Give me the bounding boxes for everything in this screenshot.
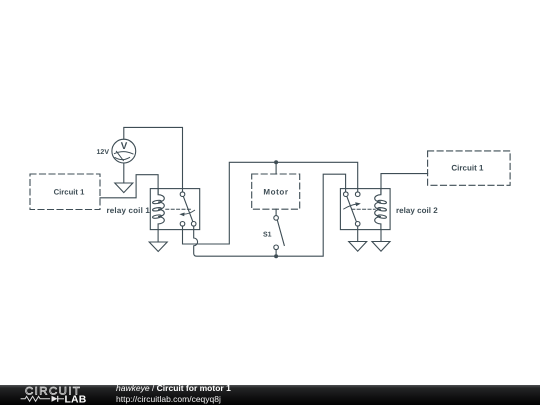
- circuit block B2 "Circuit 1" (right, dashed): [428, 151, 511, 185]
- title text: [116, 383, 231, 393]
- relay K1 box: [150, 189, 199, 230]
- relay K1 actuation arrow: [179, 210, 194, 216]
- svg-text:V: V: [121, 141, 128, 152]
- relay K1 coil (relay coil 1): [152, 189, 164, 230]
- wire W3: voltmeter bottom to ground: [123, 163, 125, 183]
- wire: motor top stub: [275, 162, 277, 174]
- wire W7: relay K2 common contact to ground: [357, 226, 359, 241]
- svg-text:relay coil 2: relay coil 2: [396, 206, 438, 215]
- CircuitLab logo: [0, 384, 100, 405]
- circuit block B1 "Circuit 1" (left, dashed): [30, 174, 100, 210]
- ground G4 (relay coil 2): [372, 242, 390, 252]
- relay K1 actuation dashed link: [166, 208, 191, 210]
- node: junction motor top: [274, 160, 278, 164]
- svg-text:Circuit 1: Circuit 1: [54, 187, 85, 196]
- relay K2 contact pins: [344, 192, 361, 226]
- node: junction S1 bottom: [274, 254, 278, 258]
- svg-text:12V: 12V: [97, 149, 110, 156]
- ground G3 (relay K2 contact): [349, 242, 367, 252]
- ground G1 (voltmeter): [115, 183, 133, 193]
- voltmeter V1 (12V): [112, 139, 136, 163]
- footer bar: [0, 385, 540, 405]
- switch S1: [274, 209, 284, 256]
- url text: [116, 394, 221, 404]
- ground G2 (relay coil 1): [149, 242, 167, 252]
- svg-text:S1: S1: [263, 231, 272, 238]
- relay K2 switch blade: [347, 197, 356, 222]
- relay K2 box: [340, 189, 390, 230]
- wire W8: relay coil 2 top to Circuit 1 (right): [381, 174, 428, 194]
- wire W9: relay coil 2 bottom to ground: [380, 230, 382, 242]
- motor block "Motor" (dashed): [252, 174, 300, 209]
- wire W5: relay1 NC contact - motor top rail - relay2: [183, 162, 358, 244]
- wire W4: relay coil 1 bottom to ground: [157, 230, 159, 242]
- wire W6: relay1 NO contact - hop - bottom rail - relay2 coilside: [194, 174, 346, 256]
- wire W2: voltmeter top over to relay 1 common contact: [124, 127, 183, 192]
- relay K2 coil (relay coil 2): [375, 189, 387, 230]
- svg-text:relay coil 1: relay coil 1: [107, 206, 151, 215]
- wire W1: Circuit1 left to relay coil 1 top: [100, 175, 158, 198]
- svg-text:Motor: Motor: [263, 187, 288, 196]
- svg-text:Circuit 1: Circuit 1: [451, 163, 484, 172]
- relay K1 switch blade: [183, 197, 192, 222]
- svg-text:LAB: LAB: [65, 394, 87, 405]
- relay K2 actuation dashed link: [352, 208, 375, 210]
- relay K2 actuation arrow: [344, 202, 361, 209]
- relay K1 contact pins: [180, 192, 196, 226]
